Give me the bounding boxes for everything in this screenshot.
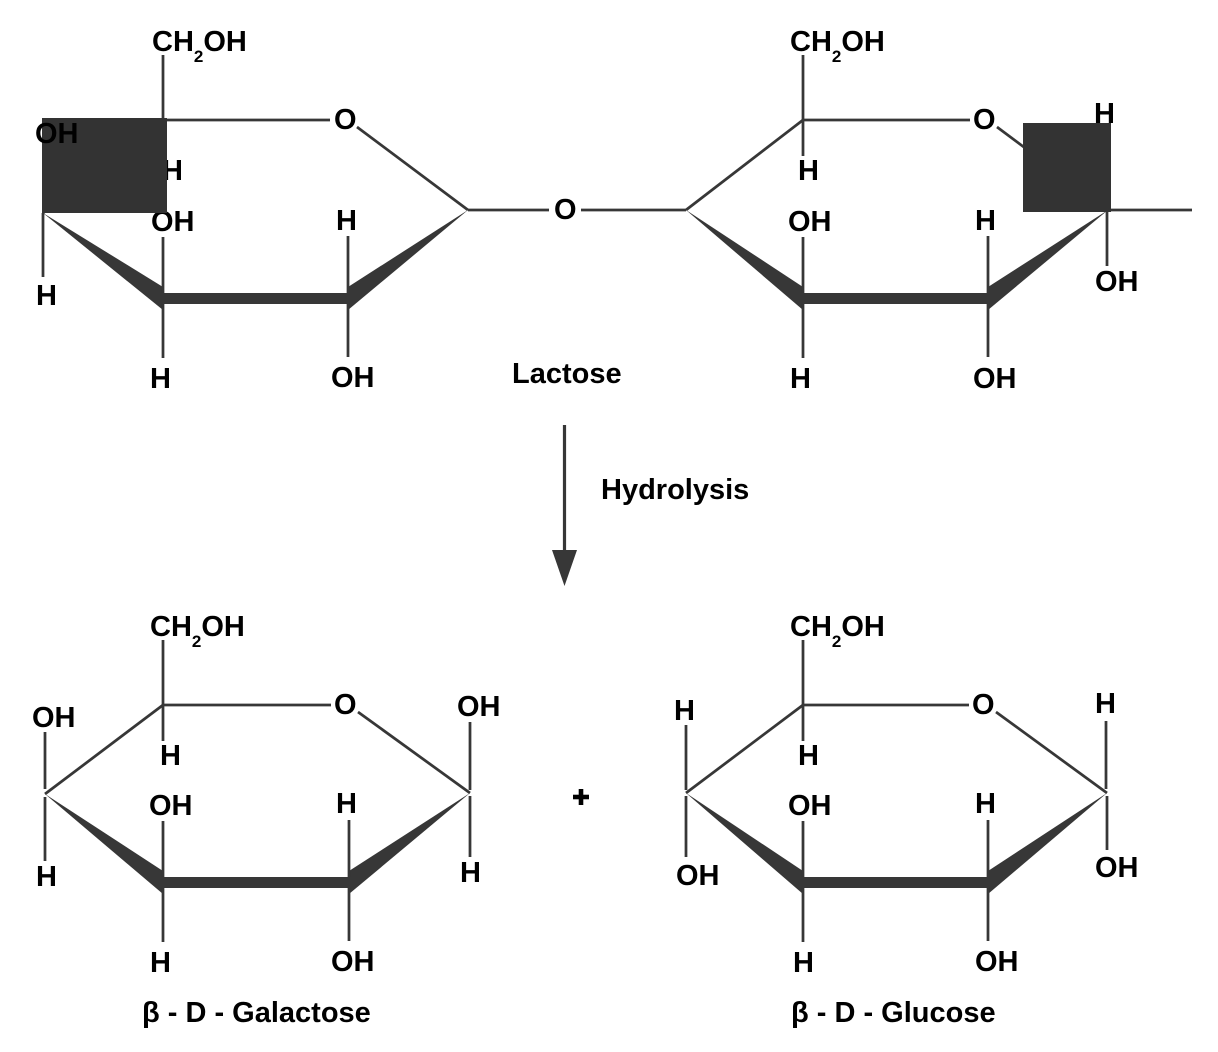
svg-text:H: H bbox=[798, 740, 819, 772]
svg-text:H: H bbox=[150, 947, 171, 979]
wedge bond C4'-C3' (top-right ring) bbox=[686, 210, 803, 310]
redaction box over C4-OH (top-left ring) bbox=[42, 118, 167, 213]
svg-text:OH: OH bbox=[32, 702, 76, 734]
bond C2-OH down (glucose) bbox=[987, 887, 990, 941]
bond C5-H stub (top-left ring) bbox=[162, 120, 165, 156]
bond O-C1 ring edge (glucose) bbox=[996, 712, 1107, 793]
svg-text:OH: OH bbox=[149, 790, 193, 822]
bond C4'-C5' ring edge (top-right ring) bbox=[686, 120, 803, 210]
bond O-C1 ring edge (top-left ring) bbox=[357, 127, 468, 210]
bold bond C3-C2 bottom bar (galactose) bbox=[163, 877, 349, 888]
svg-text:H: H bbox=[160, 740, 181, 772]
svg-text:O: O bbox=[973, 104, 996, 136]
bold bond C3-C2 bottom bar (top-left ring) bbox=[163, 293, 348, 304]
bond C5-O ring top edge (galactose) bbox=[163, 704, 331, 707]
svg-text:OH: OH bbox=[973, 363, 1017, 395]
bond C4-C5 ring edge (galactose) bbox=[45, 705, 163, 794]
wedge bond C4-C3 (galactose) bbox=[45, 794, 163, 894]
bond C5-H stub (galactose) bbox=[162, 705, 165, 741]
svg-text:H: H bbox=[1094, 98, 1115, 130]
bond C4-C5 ring edge (glucose) bbox=[686, 705, 803, 793]
wedge bond C1-C2 (top-left ring) bbox=[348, 210, 468, 310]
bond C3-OH up (top-left ring) bbox=[162, 237, 165, 293]
bond C5-O ring top edge (glucose) bbox=[803, 704, 969, 707]
svg-text:H: H bbox=[36, 861, 57, 893]
svg-text:H: H bbox=[36, 280, 57, 312]
bond C2-H up (top-left ring) bbox=[347, 236, 350, 293]
svg-text:OH: OH bbox=[788, 206, 832, 238]
svg-text:O: O bbox=[554, 194, 577, 226]
svg-text:OH: OH bbox=[975, 946, 1019, 978]
bond C5'-O' ring top edge (top-right ring) bbox=[803, 119, 970, 122]
bond C3-H down (glucose) bbox=[802, 887, 805, 942]
bond C3-OH up (galactose) bbox=[162, 821, 165, 877]
bond C2'-OH down (top-right ring) bbox=[987, 303, 990, 357]
bond C4-H down (galactose) bbox=[44, 797, 47, 861]
bond C3-OH up (glucose) bbox=[802, 821, 805, 877]
svg-text:CH2OH: CH2OH bbox=[152, 26, 247, 66]
svg-text:OH: OH bbox=[331, 362, 375, 394]
bond C1'-OH down (top-right ring) bbox=[1106, 212, 1109, 266]
bond O-C1 ring edge (galactose) bbox=[358, 712, 470, 793]
bond C4-OH up (galactose) bbox=[44, 732, 47, 789]
bond C5'-H stub (top-right ring) bbox=[802, 120, 805, 156]
wedge bond C4-C3 (top-left ring) bbox=[43, 213, 163, 310]
bond C4-H up (glucose) bbox=[685, 725, 688, 790]
svg-text:H: H bbox=[975, 205, 996, 237]
bond C3'-H down (top-right ring) bbox=[802, 303, 805, 358]
svg-text:O: O bbox=[334, 104, 357, 136]
svg-text:β - D - Glucose: β - D - Glucose bbox=[791, 997, 996, 1029]
bond C2-OH down (galactose) bbox=[348, 887, 351, 941]
bond C2-OH down (top-left ring) bbox=[347, 303, 350, 357]
bond C2-H up (glucose) bbox=[987, 820, 990, 877]
bond C3-H down (top-left ring) bbox=[162, 303, 165, 358]
svg-text:H: H bbox=[790, 363, 811, 395]
bond C1-OH up (galactose) bbox=[469, 722, 472, 790]
bond C5-H stub (glucose) bbox=[802, 705, 805, 741]
plus sign between products bbox=[579, 789, 584, 805]
bond C4-H down (top-left ring) bbox=[42, 213, 45, 277]
bond C1-OH down (glucose) bbox=[1106, 796, 1109, 850]
bond C2'-H up (top-right ring) bbox=[987, 236, 990, 293]
bond C5-O ring top edge (top-left ring) bbox=[163, 119, 330, 122]
bond C5'-CH2OH stem (top-right ring) bbox=[802, 55, 805, 120]
reaction arrow head bbox=[552, 550, 577, 586]
wedge bond C1-C2 (glucose) bbox=[988, 793, 1107, 894]
svg-text:OH: OH bbox=[457, 691, 501, 723]
bond C1-H down (galactose) bbox=[469, 796, 472, 857]
bond C4-OH down (glucose) bbox=[685, 796, 688, 857]
bond C3-H down (galactose) bbox=[162, 887, 165, 942]
svg-text:H: H bbox=[975, 788, 996, 820]
bond C2-H up (galactose) bbox=[348, 820, 351, 877]
bond C1-O glycosidic left segment bbox=[468, 209, 549, 212]
bond O-C4' glycosidic right segment bbox=[581, 209, 686, 212]
bond C5-CH2OH stem (galactose) bbox=[162, 640, 165, 705]
reaction arrow shaft bbox=[563, 425, 566, 552]
svg-text:H: H bbox=[798, 155, 819, 187]
svg-text:OH: OH bbox=[1095, 266, 1139, 298]
wedge bond C4-C3 (glucose) bbox=[686, 793, 803, 894]
svg-text:H: H bbox=[674, 695, 695, 727]
svg-text:OH: OH bbox=[331, 946, 375, 978]
svg-text:H: H bbox=[336, 205, 357, 237]
wedge bond C1-C2 (galactose) bbox=[349, 793, 470, 894]
bond C5-CH2OH stem (glucose) bbox=[802, 640, 805, 705]
svg-text:O: O bbox=[334, 689, 357, 721]
bond O'-C1' ring edge (top-right ring) bbox=[997, 127, 1108, 210]
wedge bond C1'-C2' (top-right ring) bbox=[988, 210, 1108, 310]
svg-text:H: H bbox=[1095, 688, 1116, 720]
svg-text:β - D - Galactose: β - D - Galactose bbox=[142, 997, 371, 1029]
svg-text:Lactose: Lactose bbox=[512, 358, 622, 390]
svg-text:H: H bbox=[460, 857, 481, 889]
svg-text:H: H bbox=[150, 363, 171, 395]
svg-text:OH: OH bbox=[788, 790, 832, 822]
bold bond C3-C2 bottom bar (glucose) bbox=[803, 877, 988, 888]
svg-text:OH: OH bbox=[35, 118, 79, 150]
svg-text:H: H bbox=[793, 947, 814, 979]
bond C1'-anomeric right line (top-right ring) bbox=[1111, 209, 1192, 212]
bold bond C3'-C2' bottom bar (top-right ring) bbox=[803, 293, 988, 304]
bond C3'-OH up (top-right ring) bbox=[802, 237, 805, 293]
svg-text:H: H bbox=[336, 788, 357, 820]
svg-text:OH: OH bbox=[1095, 852, 1139, 884]
svg-text:OH: OH bbox=[676, 860, 720, 892]
redaction box over C1' (top-right ring) bbox=[1023, 123, 1111, 212]
bond C4-C5 ring edge (top-left ring) bbox=[43, 120, 163, 213]
bond C5-CH2OH stem (top-left ring) bbox=[162, 55, 165, 120]
svg-text:O: O bbox=[972, 689, 995, 721]
svg-text:Hydrolysis: Hydrolysis bbox=[601, 474, 749, 506]
bond C1-H up (glucose) bbox=[1105, 721, 1108, 789]
